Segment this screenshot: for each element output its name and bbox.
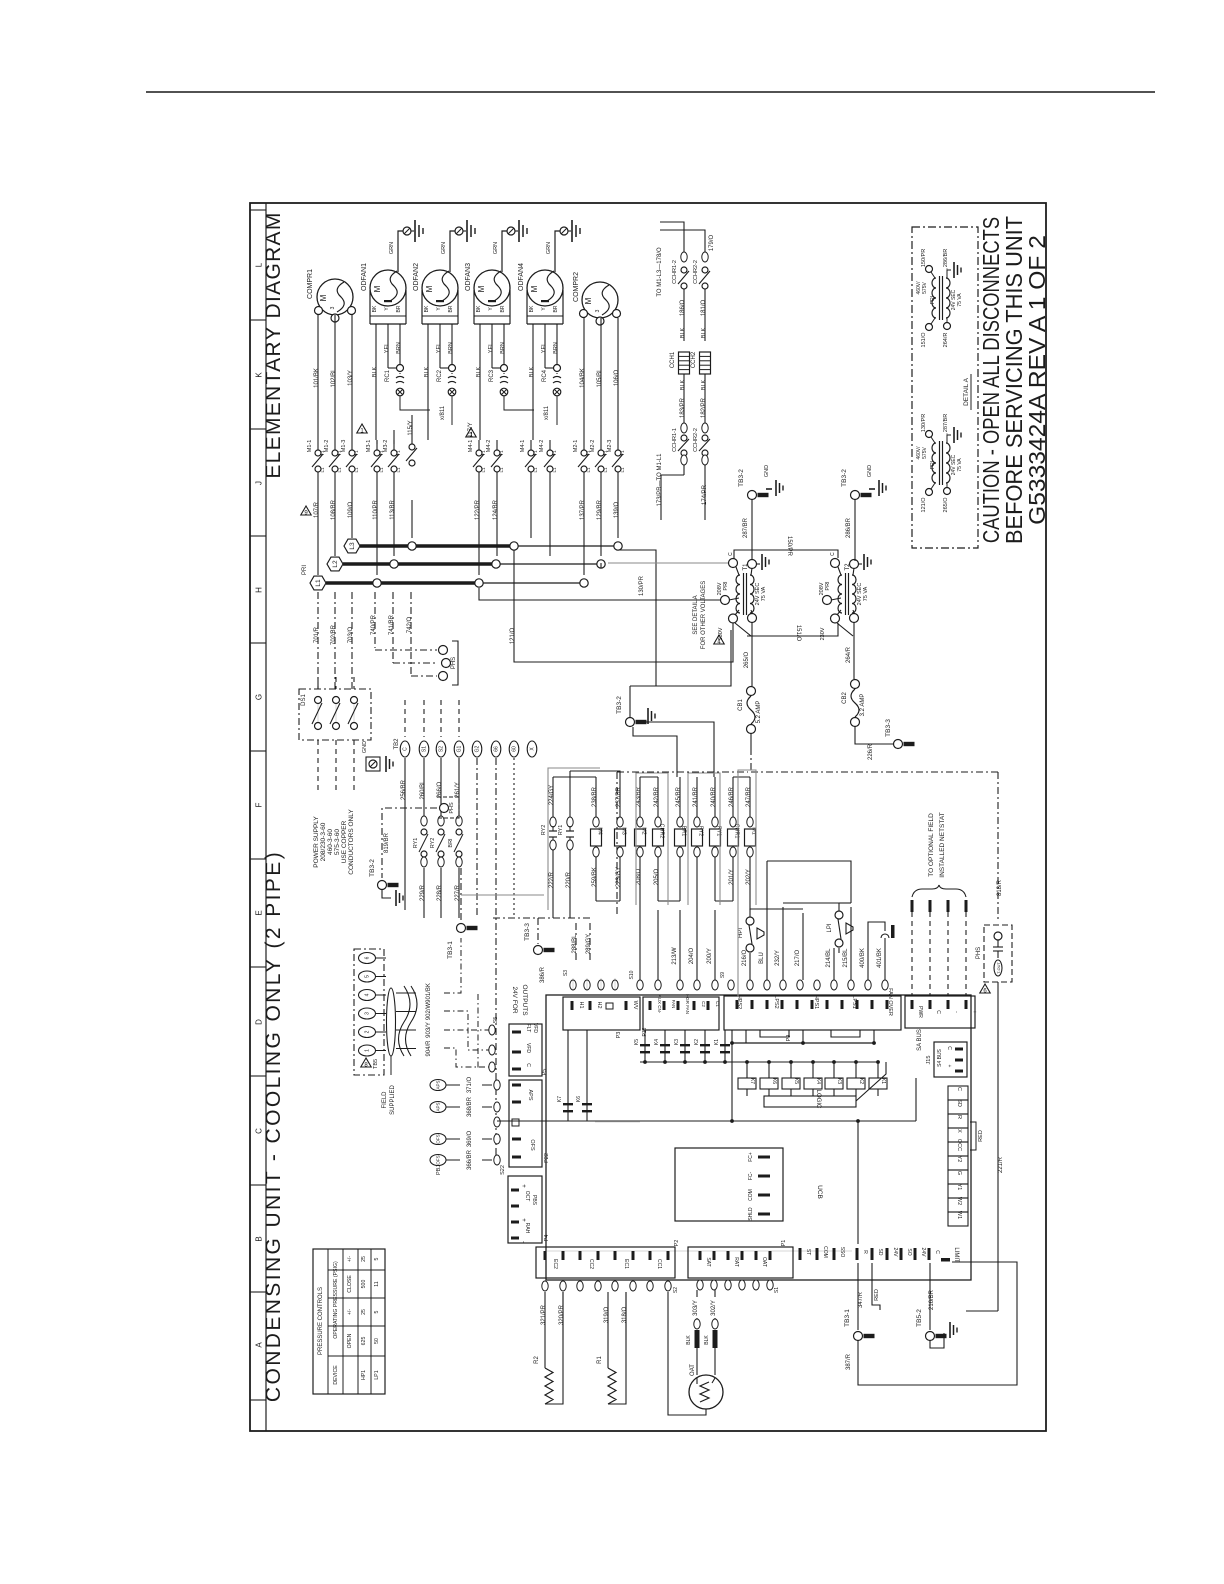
svg-text:151/O: 151/O (921, 332, 927, 348)
svg-text:M4-1: M4-1 (468, 440, 474, 453)
svg-text:229/R: 229/R (420, 884, 426, 901)
svg-text:9: 9 (304, 511, 308, 517)
svg-text:6: 6 (983, 989, 987, 995)
svg-text:740/PR: 740/PR (371, 614, 377, 635)
svg-text:R: R (862, 1250, 868, 1254)
svg-text:25: 25 (361, 1309, 367, 1315)
svg-text:265/O: 265/O (744, 652, 750, 669)
svg-text:x/811: x/811 (544, 405, 550, 420)
svg-text:208/O: 208/O (636, 869, 642, 886)
svg-text:H: H (255, 587, 264, 593)
svg-text:DS1: DS1 (301, 694, 307, 706)
svg-text:L1: L1 (481, 467, 486, 473)
svg-text:319/O: 319/O (604, 1307, 610, 1324)
svg-text:50: 50 (374, 1338, 380, 1344)
svg-text:TB5: TB5 (373, 1059, 379, 1069)
svg-text:RC3: RC3 (489, 369, 495, 382)
svg-text:K7: K7 (749, 1078, 755, 1084)
svg-text:221/R: 221/R (998, 1156, 1004, 1173)
svg-text:RY1: RY1 (716, 826, 722, 836)
svg-text:C: C (830, 552, 836, 556)
svg-text:BLK: BLK (686, 1335, 692, 1345)
svg-text:286/BR: 286/BR (943, 249, 949, 267)
svg-text:24V: 24V (920, 1248, 926, 1258)
svg-text:238/BR: 238/BR (592, 786, 598, 807)
svg-text:ODFAN3: ODFAN3 (465, 263, 472, 291)
svg-text:CC1: CC1 (656, 1259, 662, 1269)
svg-text:259/BK: 259/BK (592, 867, 598, 887)
svg-text:369/O: 369/O (467, 1131, 473, 1148)
svg-text:108/BR: 108/BR (331, 499, 337, 520)
svg-text:CHR2: CHR2 (659, 824, 665, 839)
svg-text:PBS: PBS (531, 1195, 537, 1206)
svg-text:M3-2: M3-2 (383, 440, 389, 453)
svg-text:ST: ST (805, 1249, 811, 1255)
svg-text:575V: 575V (922, 447, 928, 459)
svg-text:M4: M4 (597, 827, 603, 835)
svg-text:PHS: PHS (451, 657, 457, 669)
svg-text:139/O: 139/O (614, 502, 620, 519)
svg-text:241/BR: 241/BR (693, 786, 699, 807)
svg-text:C: C (946, 1046, 952, 1050)
svg-text:260/BL: 260/BL (420, 780, 426, 800)
svg-text:ODFAN2: ODFAN2 (413, 263, 420, 291)
svg-text:PRI: PRI (302, 565, 308, 575)
svg-text:SUPPLIED: SUPPLIED (390, 1084, 396, 1114)
svg-text:228/R: 228/R (437, 884, 443, 901)
svg-text:PWR: PWR (917, 1006, 923, 1018)
svg-text:105/BL: 105/BL (597, 368, 603, 388)
svg-text:RED: RED (874, 1289, 880, 1301)
svg-text:Y: Y (541, 307, 547, 311)
svg-text:287/BR: 287/BR (743, 517, 749, 538)
svg-text:BR: BR (553, 305, 559, 312)
svg-text:OAT: OAT (690, 1364, 696, 1376)
svg-text:VFD: VFD (525, 1043, 531, 1053)
svg-text:575-3-60: 575-3-60 (334, 829, 341, 855)
svg-text:CCHR2-2: CCHR2-2 (693, 260, 699, 284)
svg-text:SSO: SSO (839, 1247, 845, 1258)
svg-text:RED: RED (978, 1130, 984, 1142)
svg-text:SAT: SAT (705, 1257, 711, 1266)
svg-text:L1: L1 (379, 467, 384, 473)
svg-text:214/BL: 214/BL (826, 948, 832, 968)
svg-text:186/O: 186/O (680, 300, 686, 317)
svg-text:C2: C2 (701, 1001, 706, 1007)
svg-text:3: 3 (595, 309, 601, 312)
svg-text:K4: K4 (654, 1039, 660, 1045)
svg-text:115/Y: 115/Y (408, 420, 414, 435)
svg-text:174/PR: 174/PR (702, 484, 708, 505)
svg-text:G5333424A REV A 1 OF 2: G5333424A REV A 1 OF 2 (1025, 235, 1051, 525)
svg-text:400/BK: 400/BK (860, 948, 866, 968)
svg-text:G2: G2 (475, 745, 481, 752)
svg-text:YEL: YEL (488, 343, 494, 353)
svg-text:H2: H2 (596, 1001, 602, 1008)
svg-text:M1-3: M1-3 (341, 440, 347, 453)
svg-text:M: M (584, 297, 593, 304)
svg-text:-: - (520, 1241, 526, 1243)
svg-text:5: 5 (365, 975, 371, 978)
svg-text:819/BR: 819/BR (384, 832, 390, 853)
svg-text:LP1: LP1 (374, 1370, 380, 1379)
svg-text:K2: K2 (694, 1039, 700, 1045)
svg-text:USE COPPER: USE COPPER (341, 820, 348, 863)
svg-text:OPERATING PRESSURE (PSIG): OPERATING PRESSURE (PSIG) (333, 1261, 339, 1339)
svg-text:387/R: 387/R (846, 1353, 852, 1370)
svg-text:EC2: EC2 (552, 1259, 558, 1269)
svg-text:150/PR: 150/PR (786, 536, 792, 557)
svg-text:130/PR: 130/PR (921, 414, 927, 432)
svg-text:S9: S9 (720, 972, 726, 978)
svg-text:PBJ: PBJ (436, 1165, 442, 1175)
svg-text:-: - (953, 1011, 959, 1013)
svg-text:FAN: FAN (671, 1000, 676, 1009)
svg-text:BLK: BLK (701, 379, 707, 390)
svg-text:HGR FAN: HGR FAN (685, 994, 690, 1014)
svg-text:S2: S2 (673, 1287, 679, 1293)
svg-text:M2-1: M2-1 (573, 440, 579, 453)
svg-text:227/R: 227/R (455, 884, 461, 901)
svg-text:25: 25 (361, 1256, 367, 1262)
svg-text:TB3-2: TB3-2 (616, 696, 623, 714)
svg-text:APS: APS (527, 1089, 533, 1100)
svg-text:124/BR: 124/BR (493, 499, 499, 520)
svg-text:OFS: OFS (529, 1139, 535, 1151)
svg-text:C: C (728, 552, 734, 556)
svg-text:4: 4 (365, 993, 371, 996)
svg-text:P22: P22 (544, 1153, 550, 1163)
svg-text:226/R: 226/R (868, 743, 874, 760)
svg-text:TB3-3: TB3-3 (885, 719, 892, 737)
svg-text:24V: 24V (892, 1248, 898, 1258)
svg-text:RC1: RC1 (385, 369, 391, 382)
svg-text:LIMIT: LIMIT (953, 1247, 959, 1263)
svg-text:265/O: 265/O (943, 497, 949, 513)
svg-text:289/GY: 289/GY (586, 934, 592, 954)
svg-text:COM: COM (748, 1189, 754, 1201)
svg-text:M1-1: M1-1 (307, 440, 313, 453)
svg-text:M3-1: M3-1 (366, 440, 372, 453)
svg-text:243/BR: 243/BR (636, 786, 642, 807)
svg-text:904/R: 904/R (426, 1040, 432, 1057)
svg-text:217/O: 217/O (795, 950, 801, 967)
svg-text:L1: L1 (620, 467, 625, 473)
svg-text:FC-: FC- (748, 1172, 754, 1181)
svg-text:TO M1-L3—178/O: TO M1-L3—178/O (657, 247, 663, 297)
svg-text:S1: S1 (774, 1287, 780, 1293)
svg-text:LOGIC: LOGIC (815, 1090, 821, 1109)
svg-text:APS: APS (436, 1080, 441, 1089)
svg-text:CB2: CB2 (842, 692, 848, 704)
svg-text:BK: BK (424, 305, 430, 312)
svg-text:75 VA: 75 VA (761, 586, 767, 601)
svg-text:75 VA: 75 VA (957, 458, 963, 472)
svg-text:288/BL: 288/BL (572, 934, 578, 954)
svg-text:266/O: 266/O (437, 782, 443, 799)
svg-text:CB1: CB1 (738, 699, 744, 711)
svg-text:232/Y: 232/Y (775, 950, 781, 966)
svg-text:5.2 AMP: 5.2 AMP (756, 701, 762, 724)
svg-text:GRN: GRN (441, 242, 447, 254)
svg-text:242/BR: 242/BR (654, 786, 660, 807)
svg-text:C: C (403, 747, 409, 751)
svg-text:SA BUS: SA BUS (917, 1029, 923, 1051)
svg-text:173/PR—TO M1-L1: 173/PR—TO M1-L1 (657, 453, 663, 507)
svg-text:BRN: BRN (500, 342, 506, 354)
svg-text:AUX CN-: AUX CN- (657, 995, 662, 1014)
svg-text:ODFAN1: ODFAN1 (361, 263, 368, 291)
svg-text:K4: K4 (815, 1078, 821, 1084)
svg-text:TB3-1: TB3-1 (844, 1309, 851, 1327)
svg-text:137/PR: 137/PR (580, 499, 586, 520)
svg-text:GRN: GRN (493, 242, 499, 254)
svg-text:L1: L1 (337, 467, 342, 473)
svg-text:K5: K5 (634, 1039, 640, 1045)
svg-text:M: M (373, 285, 382, 292)
svg-text:5: 5 (374, 1257, 380, 1260)
svg-text:S10: S10 (629, 970, 635, 979)
svg-text:W2: W2 (956, 1197, 962, 1205)
svg-text:T1: T1 (499, 450, 504, 456)
svg-text:HP1: HP1 (361, 1370, 367, 1380)
svg-text:GND: GND (867, 465, 873, 477)
svg-text:C: C (956, 1087, 962, 1091)
svg-text:K3: K3 (674, 1039, 680, 1045)
svg-text:J: J (255, 481, 264, 485)
svg-text:CLOSE: CLOSE (347, 1275, 353, 1293)
svg-text:L1: L1 (552, 467, 557, 473)
svg-text:L2: L2 (332, 560, 339, 568)
svg-text:M: M (425, 285, 434, 292)
svg-text:60: 60 (512, 746, 518, 752)
svg-text:RC2: RC2 (437, 369, 443, 382)
svg-text:x/811: x/811 (440, 405, 446, 420)
svg-text:CCH2: CCH2 (691, 351, 697, 368)
svg-text:742/O: 742/O (407, 617, 413, 634)
svg-text:RAH: RAH (524, 1223, 530, 1234)
svg-text:245/BR: 245/BR (676, 786, 682, 807)
svg-text:CCH1: CCH1 (670, 351, 676, 368)
svg-text:202/Y: 202/Y (746, 869, 752, 885)
svg-text:G: G (956, 1171, 962, 1175)
svg-text:109/O: 109/O (348, 502, 354, 519)
svg-text:M3: M3 (621, 827, 627, 835)
svg-text:SHLD: SHLD (748, 1207, 754, 1221)
svg-text:RY2: RY2 (541, 825, 547, 836)
svg-text:106/O: 106/O (614, 370, 620, 387)
svg-text:129/BR: 129/BR (597, 499, 603, 520)
svg-text:YEL: YEL (541, 343, 547, 353)
svg-text:K6: K6 (576, 1096, 582, 1102)
svg-text:818/R: 818/R (997, 879, 1003, 896)
svg-text:Y1: Y1 (956, 1184, 962, 1191)
svg-text:216/BR: 216/BR (929, 1289, 935, 1310)
svg-text:PRESSURE CONTROLS: PRESSURE CONTROLS (318, 1287, 324, 1355)
svg-text:M: M (319, 294, 328, 301)
svg-text:460-3-60: 460-3-60 (327, 829, 334, 855)
svg-text:5: 5 (374, 1310, 380, 1313)
svg-text:150/PR: 150/PR (921, 249, 927, 267)
svg-text:200/Y: 200/Y (707, 948, 713, 964)
svg-text:S22: S22 (500, 1165, 506, 1175)
svg-text:102/BL: 102/BL (331, 368, 337, 388)
svg-text:J15: J15 (926, 1056, 932, 1065)
svg-text:179/O: 179/O (709, 235, 715, 252)
svg-text:575V: 575V (922, 282, 928, 294)
svg-text:T1: T1 (533, 450, 538, 456)
svg-text:256/BR: 256/BR (401, 779, 407, 800)
svg-text:BRN: BRN (396, 342, 402, 354)
svg-text:264/R: 264/R (943, 333, 949, 348)
svg-text:CCHR1-2: CCHR1-2 (672, 260, 678, 284)
svg-text:M4-2: M4-2 (539, 440, 545, 453)
svg-text:BLK: BLK (372, 366, 378, 377)
svg-text:BK: BK (372, 305, 378, 312)
svg-text:L1: L1 (499, 467, 504, 473)
svg-text:C: C (935, 1010, 941, 1014)
svg-text:BR: BR (500, 305, 506, 312)
svg-text:121/O: 121/O (921, 497, 927, 513)
svg-text:CC2: CC2 (588, 1259, 594, 1269)
svg-text:FOR OTHER VOLTAGES: FOR OTHER VOLTAGES (701, 581, 707, 649)
svg-text:M4-1: M4-1 (520, 440, 526, 453)
svg-text:C: C (934, 1250, 940, 1254)
svg-text:Y2: Y2 (956, 1156, 962, 1163)
svg-text:VFD: VFD (532, 1023, 538, 1033)
svg-text:UCB: UCB (816, 1185, 823, 1199)
svg-text:702/BR: 702/BR (331, 624, 337, 645)
svg-text:BR1: BR1 (681, 826, 687, 837)
svg-text:M1-2: M1-2 (324, 440, 330, 453)
svg-text:BLK: BLK (680, 379, 686, 390)
svg-text:PRI: PRI (930, 461, 936, 469)
svg-text:182/PR: 182/PR (701, 397, 707, 418)
svg-text:R1: R1 (597, 1356, 603, 1364)
svg-text:FIELD: FIELD (382, 1091, 388, 1109)
svg-text:BRN: BRN (448, 342, 454, 354)
svg-text:L1: L1 (396, 467, 401, 473)
svg-text:T1: T1 (354, 450, 359, 456)
svg-text:24V FOR: 24V FOR (511, 986, 518, 1013)
svg-text:PRI: PRI (723, 581, 729, 591)
svg-text:2: 2 (365, 1030, 371, 1033)
svg-text:G1: G1 (457, 745, 463, 752)
svg-text:224/GY: 224/GY (549, 785, 555, 805)
svg-text:RY2: RY2 (698, 826, 704, 836)
svg-text:TB2: TB2 (394, 738, 400, 750)
svg-text:3.2 AMP: 3.2 AMP (860, 694, 866, 717)
svg-text:901/BK: 901/BK (426, 983, 432, 1003)
svg-text:BLK: BLK (701, 327, 707, 338)
svg-text:BLK: BLK (704, 1335, 710, 1345)
svg-text:201/Y: 201/Y (729, 869, 735, 885)
svg-text:S5: S5 (493, 1017, 499, 1024)
svg-text:DEVICE: DEVICE (333, 1365, 339, 1385)
svg-text:P5: P5 (542, 1069, 548, 1076)
svg-text:PHS: PHS (976, 947, 982, 959)
svg-text:BLK: BLK (424, 366, 430, 377)
svg-text:SO: SO (906, 1248, 912, 1255)
svg-text:222/R: 222/R (549, 871, 555, 888)
svg-text:HPS1: HPS1 (813, 995, 819, 1009)
svg-text:R: R (956, 1115, 962, 1119)
svg-text:625: 625 (361, 1337, 367, 1346)
svg-text:110/PR: 110/PR (373, 500, 379, 520)
svg-text:368/BR: 368/BR (467, 1096, 473, 1117)
svg-text:K7: K7 (557, 1096, 563, 1102)
svg-text:PRI: PRI (930, 296, 936, 304)
svg-text:S3: S3 (563, 970, 569, 976)
svg-text:HPI: HPI (738, 928, 744, 938)
svg-text:75 VA: 75 VA (863, 586, 869, 601)
svg-text:+: + (520, 1218, 526, 1222)
svg-text:264/R: 264/R (846, 646, 852, 663)
svg-text:M: M (530, 285, 539, 292)
svg-text:GRN: GRN (546, 242, 552, 254)
svg-text:OCT: OCT (524, 1191, 530, 1202)
svg-text:66: 66 (494, 746, 500, 752)
svg-text:204/O: 204/O (689, 948, 695, 965)
svg-text:L1: L1 (320, 467, 325, 473)
svg-text:247/BR: 247/BR (746, 786, 752, 807)
svg-text:TO OPTIONAL FIELD: TO OPTIONAL FIELD (928, 813, 935, 877)
svg-text:PHS: PHS (449, 802, 455, 814)
svg-text:11: 11 (374, 1281, 380, 1286)
svg-text:EC1: EC1 (623, 1259, 629, 1269)
svg-text:TB3-2: TB3-2 (738, 469, 745, 487)
svg-text:122/PR: 122/PR (475, 499, 481, 520)
svg-text:75 VA: 75 VA (957, 293, 963, 307)
svg-text:M4-2: M4-2 (486, 440, 492, 453)
svg-text:RY1: RY1 (558, 825, 564, 836)
svg-text:LPI: LPI (827, 923, 833, 932)
svg-text:INSTALLED NETSTAT: INSTALLED NETSTAT (939, 812, 946, 877)
svg-text:M: M (477, 285, 486, 292)
svg-text:P2: P2 (674, 1240, 680, 1247)
svg-text:1: 1 (365, 1049, 371, 1052)
svg-text:287/BR: 287/BR (943, 414, 949, 432)
svg-text:101/BK: 101/BK (314, 368, 320, 388)
svg-text:P4: P4 (544, 1235, 550, 1242)
svg-text:M2-2: M2-2 (590, 440, 596, 453)
svg-text:902/W: 902/W (426, 1002, 432, 1020)
svg-text:R2: R2 (534, 1356, 540, 1364)
svg-text:COMPR2: COMPR2 (573, 272, 580, 302)
svg-text:1: 1 (360, 429, 364, 435)
svg-text:OFS: OFS (436, 1155, 441, 1164)
svg-text:T-OUT: T-OUT (997, 962, 1001, 974)
svg-text:347/R: 347/R (858, 1291, 864, 1308)
svg-text:BRI: BRI (448, 838, 454, 848)
svg-text:BRN: BRN (553, 342, 559, 354)
svg-text:G: G (255, 694, 264, 700)
svg-text:TB3-1: TB3-1 (447, 941, 454, 959)
svg-text:215/BL: 215/BL (843, 948, 849, 968)
svg-text:GND: GND (362, 741, 368, 753)
svg-text:GND: GND (764, 465, 770, 477)
svg-text:PRI: PRI (825, 581, 831, 591)
svg-text:YEL: YEL (384, 343, 390, 353)
svg-text:L1: L1 (315, 579, 322, 587)
svg-text:M2: M2 (641, 827, 647, 835)
svg-text:386/R: 386/R (540, 966, 546, 983)
svg-text:113/BR: 113/BR (390, 500, 396, 520)
svg-text:L1: L1 (586, 467, 591, 473)
svg-text:TB3-2: TB3-2 (841, 469, 848, 487)
svg-text:+/-: +/- (347, 1309, 353, 1315)
svg-text:320/PR: 320/PR (559, 1304, 565, 1325)
